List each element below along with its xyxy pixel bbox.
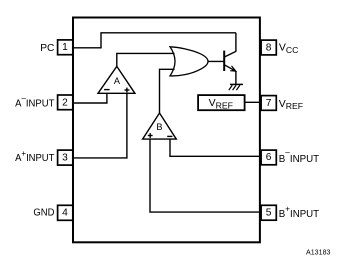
svg-text:A13183: A13183 (306, 249, 331, 257)
OR gate (170, 47, 208, 76)
svg-text:2: 2 (62, 98, 68, 109)
pin 4 box (58, 205, 73, 220)
wire pin5 to comparator B plus input (150, 139, 261, 212)
pin 2 box (58, 95, 73, 110)
svg-text:B–INPUT: B–INPUT (279, 147, 319, 165)
comparator B (143, 113, 177, 139)
wire VREF block to pin 7 (245, 101, 261, 103)
svg-text:7: 7 (266, 98, 272, 109)
svg-text:5: 5 (266, 207, 272, 218)
comparator A (98, 66, 135, 93)
ground (229, 84, 243, 90)
svg-text:B: B (156, 122, 162, 132)
svg-text:6: 6 (266, 152, 272, 163)
svg-text:3: 3 (62, 152, 68, 163)
pin 5 box (261, 205, 276, 220)
VREF block (198, 95, 245, 110)
svg-text:1: 1 (62, 42, 68, 53)
svg-text:A+INPUT: A+INPUT (15, 148, 54, 164)
wire pin2 to comparator A minus input (73, 93, 107, 103)
pin 1 box (58, 40, 73, 55)
pin 7 box (261, 96, 276, 111)
wire pin3 to comparator A plus input (73, 93, 127, 158)
svg-text:8: 8 (266, 42, 272, 53)
transistor Q1 (224, 33, 236, 85)
wire OR gate output to transistor base (208, 60, 225, 62)
svg-text:4: 4 (62, 208, 68, 219)
IC outline (73, 18, 260, 243)
svg-text:A–INPUT: A–INPUT (15, 93, 54, 110)
wire PC net: pin1 to transistor collector (73, 33, 236, 48)
wire comparator B output to OR gate bottom input (160, 69, 175, 113)
pin 6 box (261, 150, 276, 165)
svg-text:PC: PC (40, 43, 54, 54)
pin 8 box (261, 40, 276, 55)
svg-text:VREF: VREF (279, 98, 303, 111)
svg-text:A: A (114, 76, 121, 86)
wire comparator A output to OR gate top input (117, 53, 175, 66)
svg-text:VCC: VCC (279, 42, 299, 55)
pin 3 box (58, 150, 73, 165)
svg-text:B+INPUT: B+INPUT (279, 203, 319, 220)
svg-text:GND: GND (33, 207, 54, 218)
wire pin6 to comparator B minus input (170, 139, 261, 156)
